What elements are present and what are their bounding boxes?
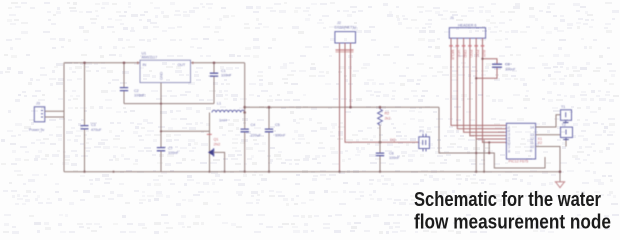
microcontroller U2 PIC12F675 <box>506 123 535 163</box>
wire ground rail <box>64 170 561 173</box>
capacitor C8 100nF <box>475 58 516 80</box>
net labels J2 pins <box>336 49 354 52</box>
svg-text:flow measurement node: flow measurement node <box>414 211 611 234</box>
wire +5V top rail <box>64 62 245 64</box>
capacitor C5 100nF <box>265 106 286 173</box>
wire ground link under regulator <box>124 103 214 105</box>
test point TP1 <box>561 105 572 123</box>
wire J1 pin2 <box>457 38 506 129</box>
voltage regulator U1 AMS1117 <box>138 52 193 83</box>
net label MCU right pins <box>538 137 543 145</box>
wire J2 pin2 DQ <box>345 43 419 144</box>
wire J3 pin1 to +5V <box>45 110 64 112</box>
capacitor C3 470uF <box>81 62 103 173</box>
test point TP2 <box>561 123 573 141</box>
flow sensor connector P1 <box>419 130 430 152</box>
connector J1 ICSP header <box>449 16 485 38</box>
capacitor C2 100nF <box>120 62 145 104</box>
capacitor C7 100nF <box>157 147 179 172</box>
ground <box>555 182 566 188</box>
capacitor C6 100nF <box>376 142 400 173</box>
connector J3 Power 5v <box>29 102 45 133</box>
svg-text:Schematic for the water: Schematic for the water <box>414 188 601 211</box>
wire pin5 ground drop <box>475 139 477 173</box>
net labels J1 pins <box>449 45 486 60</box>
wire junction drop <box>488 141 490 154</box>
wire J3 pin2 to ground <box>45 117 115 173</box>
wire left vertical from rail to ground rail <box>63 63 65 172</box>
wire J1 pin3 <box>464 38 507 132</box>
inductor L1 <box>212 102 245 123</box>
wire J1 pin1 <box>451 38 506 125</box>
connector J2 DS18B20 <box>335 21 357 43</box>
wire pin6 drop <box>483 140 485 173</box>
wire U1 GND pin down <box>160 83 162 148</box>
wire base branch <box>160 130 210 132</box>
wire VCC to MCU <box>439 107 545 168</box>
wire MCU to TP2 <box>536 134 561 136</box>
wire TP2 stub <box>565 141 567 147</box>
wire regulator output drop <box>243 63 246 114</box>
transistor Q1 <box>207 113 220 173</box>
capacitor C1 100nF <box>210 62 232 104</box>
capacitor C4 220uF <box>241 113 262 173</box>
wire J1 pin6 <box>483 38 507 142</box>
net label DQ <box>390 138 396 142</box>
wire emitter branch to ground <box>214 152 226 172</box>
resistor R2 <box>378 106 391 142</box>
wire J1 pin5 <box>476 38 506 139</box>
wire MCU pin to ground symbol <box>536 147 560 182</box>
wire J2 pin1 GND <box>338 43 340 173</box>
wire J2 pin3 VCC <box>349 43 352 108</box>
wire J1 pin4 <box>470 38 507 135</box>
wire MCU to TP1 <box>536 115 561 127</box>
wire mid VCC rail <box>245 106 439 108</box>
